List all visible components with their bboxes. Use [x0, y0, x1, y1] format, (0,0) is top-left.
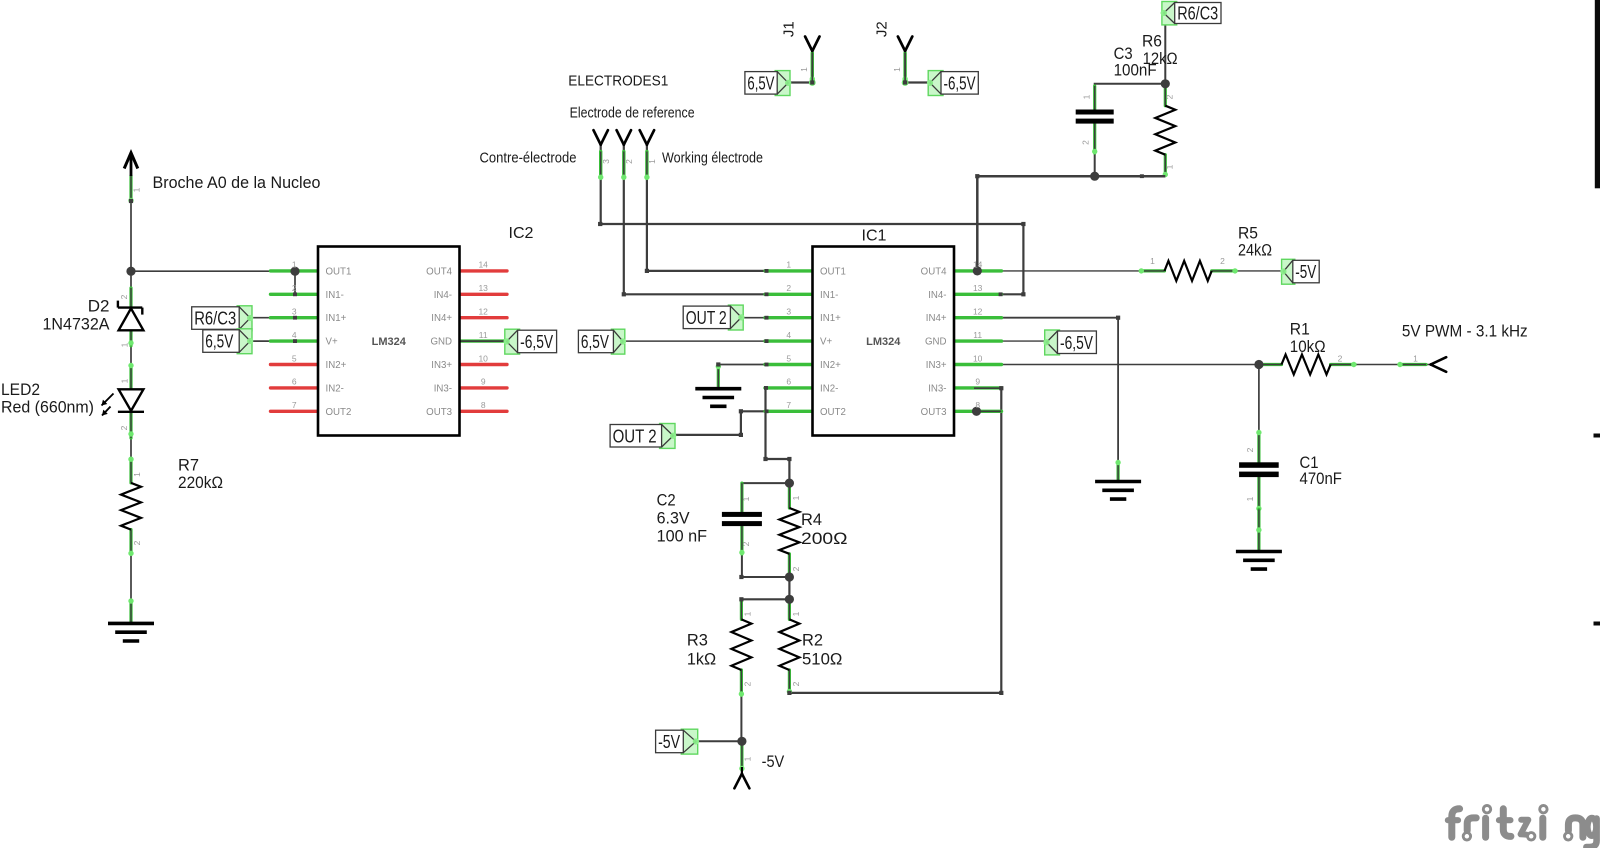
- svg-text:OUT 2: OUT 2: [613, 426, 657, 446]
- svg-text:Broche A0 de la Nucleo: Broche A0 de la Nucleo: [153, 173, 321, 192]
- svg-text:IN1+: IN1+: [820, 313, 841, 324]
- svg-text:12: 12: [973, 307, 983, 317]
- svg-text:2: 2: [791, 681, 801, 686]
- svg-text:9: 9: [975, 377, 980, 387]
- svg-text:3: 3: [601, 159, 611, 164]
- svg-text:510Ω: 510Ω: [802, 650, 842, 669]
- svg-text:OUT 2: OUT 2: [686, 308, 727, 328]
- svg-text:LM324: LM324: [866, 336, 901, 348]
- svg-text:IN3+: IN3+: [926, 360, 947, 371]
- svg-text:ELECTRODES1: ELECTRODES1: [568, 72, 668, 89]
- svg-text:4: 4: [786, 330, 791, 340]
- svg-text:IN3-: IN3-: [434, 383, 452, 394]
- svg-text:1: 1: [1245, 496, 1255, 501]
- svg-text:Red (660nm): Red (660nm): [1, 398, 94, 417]
- svg-text:1: 1: [743, 756, 753, 761]
- svg-text:2: 2: [119, 425, 129, 430]
- svg-text:1: 1: [292, 260, 297, 270]
- svg-text:11: 11: [479, 330, 488, 340]
- svg-text:-5V: -5V: [762, 752, 785, 771]
- svg-text:8: 8: [975, 400, 980, 410]
- svg-text:14: 14: [973, 260, 983, 270]
- svg-text:R3: R3: [687, 631, 708, 650]
- svg-text:4: 4: [292, 330, 297, 340]
- svg-text:5: 5: [292, 353, 297, 363]
- svg-text:7: 7: [786, 400, 791, 410]
- svg-text:V+: V+: [820, 337, 832, 348]
- svg-text:C2: C2: [657, 491, 676, 510]
- svg-text:IN1-: IN1-: [326, 290, 344, 301]
- svg-text:11: 11: [973, 330, 982, 340]
- svg-text:6: 6: [292, 377, 297, 387]
- svg-text:13: 13: [478, 283, 488, 293]
- svg-text:6,5V: 6,5V: [205, 332, 233, 352]
- svg-text:3: 3: [786, 307, 791, 317]
- svg-text:2: 2: [743, 681, 753, 686]
- svg-text:LM324: LM324: [372, 336, 407, 348]
- svg-text:Electrode de reference: Electrode de reference: [570, 105, 695, 122]
- svg-text:1: 1: [1413, 354, 1418, 364]
- svg-text:IN2+: IN2+: [820, 360, 841, 371]
- svg-text:R7: R7: [178, 456, 199, 475]
- svg-text:IC1: IC1: [862, 228, 887, 245]
- svg-text:OUT2: OUT2: [820, 407, 846, 418]
- svg-text:R6/C3: R6/C3: [1177, 4, 1218, 24]
- svg-text:-6,5V: -6,5V: [520, 332, 553, 352]
- svg-text:OUT1: OUT1: [326, 266, 352, 277]
- svg-text:IN1+: IN1+: [326, 313, 347, 324]
- svg-text:IN4+: IN4+: [926, 313, 947, 324]
- svg-text:1: 1: [120, 342, 130, 347]
- svg-text:-5V: -5V: [658, 732, 680, 752]
- svg-text:OUT1: OUT1: [820, 266, 846, 277]
- svg-text:10kΩ: 10kΩ: [1290, 337, 1326, 356]
- svg-text:-6,5V: -6,5V: [1060, 333, 1093, 353]
- svg-text:Working électrode: Working électrode: [662, 150, 763, 167]
- svg-text:2: 2: [132, 540, 142, 545]
- svg-text:Contre-électrode: Contre-électrode: [480, 150, 577, 167]
- svg-text:1: 1: [132, 472, 142, 477]
- svg-text:R6/C3: R6/C3: [194, 309, 236, 329]
- svg-text:R4: R4: [801, 510, 822, 529]
- svg-text:2: 2: [1245, 447, 1255, 452]
- svg-text:OUT4: OUT4: [921, 266, 947, 277]
- svg-text:OUT4: OUT4: [426, 266, 452, 277]
- svg-text:IN4-: IN4-: [928, 290, 946, 301]
- svg-text:12kΩ: 12kΩ: [1143, 49, 1178, 68]
- svg-text:IN2-: IN2-: [820, 383, 838, 394]
- svg-text:3: 3: [292, 307, 297, 317]
- svg-text:1: 1: [799, 67, 809, 72]
- svg-text:R1: R1: [1290, 320, 1310, 339]
- svg-text:5: 5: [786, 353, 791, 363]
- svg-text:2: 2: [1220, 256, 1225, 266]
- svg-text:2: 2: [791, 566, 801, 571]
- svg-text:1: 1: [741, 496, 751, 501]
- svg-text:2: 2: [624, 159, 634, 164]
- svg-text:IN3+: IN3+: [431, 360, 452, 371]
- svg-text:1: 1: [132, 187, 142, 192]
- svg-text:2: 2: [119, 294, 129, 299]
- svg-text:1: 1: [1082, 94, 1092, 99]
- svg-text:IN1-: IN1-: [820, 290, 838, 301]
- svg-text:13: 13: [973, 283, 983, 293]
- svg-text:D2: D2: [88, 297, 110, 316]
- svg-text:IN2-: IN2-: [326, 383, 344, 394]
- svg-text:6: 6: [786, 377, 791, 387]
- svg-text:J2: J2: [874, 21, 891, 37]
- svg-text:1: 1: [791, 611, 801, 616]
- svg-text:IC2: IC2: [509, 225, 534, 242]
- svg-text:1: 1: [743, 611, 753, 616]
- svg-text:1: 1: [647, 159, 657, 164]
- svg-text:14: 14: [478, 260, 488, 270]
- svg-text:LED2: LED2: [1, 380, 40, 399]
- svg-text:IN2+: IN2+: [326, 360, 347, 371]
- svg-text:J1: J1: [781, 21, 798, 37]
- svg-text:1N4732A: 1N4732A: [43, 315, 111, 334]
- svg-text:220kΩ: 220kΩ: [178, 473, 223, 492]
- svg-text:1: 1: [786, 260, 791, 270]
- svg-text:6,5V: 6,5V: [747, 73, 774, 93]
- svg-text:24kΩ: 24kΩ: [1238, 241, 1272, 260]
- svg-text:7: 7: [292, 400, 297, 410]
- svg-text:OUT3: OUT3: [426, 407, 452, 418]
- svg-text:1kΩ: 1kΩ: [687, 650, 716, 669]
- svg-text:100 nF: 100 nF: [657, 527, 708, 546]
- svg-text:IN4-: IN4-: [434, 290, 452, 301]
- svg-text:2: 2: [1081, 140, 1091, 145]
- svg-text:OUT2: OUT2: [326, 407, 352, 418]
- svg-text:1: 1: [120, 378, 130, 383]
- svg-text:6.3V: 6.3V: [657, 509, 691, 528]
- svg-text:-5V: -5V: [1295, 262, 1316, 282]
- svg-text:GND: GND: [925, 337, 947, 348]
- svg-text:2: 2: [292, 283, 297, 293]
- svg-text:2: 2: [1165, 94, 1175, 99]
- svg-text:R6: R6: [1142, 32, 1162, 51]
- svg-text:9: 9: [481, 377, 486, 387]
- svg-text:8: 8: [481, 400, 486, 410]
- svg-text:1: 1: [791, 495, 801, 500]
- svg-text:OUT3: OUT3: [921, 407, 947, 418]
- svg-text:470nF: 470nF: [1300, 469, 1342, 488]
- svg-text:R2: R2: [802, 631, 823, 650]
- svg-text:GND: GND: [430, 337, 452, 348]
- svg-text:2: 2: [1338, 354, 1343, 364]
- svg-text:V+: V+: [326, 337, 338, 348]
- svg-text:10: 10: [973, 353, 983, 363]
- svg-text:1: 1: [1150, 256, 1155, 266]
- svg-text:IN3-: IN3-: [928, 383, 946, 394]
- svg-text:1: 1: [892, 67, 902, 72]
- svg-text:5V PWM - 3.1 kHz: 5V PWM - 3.1 kHz: [1402, 322, 1528, 341]
- svg-text:-6,5V: -6,5V: [944, 73, 976, 93]
- svg-text:12: 12: [478, 307, 488, 317]
- svg-text:2: 2: [741, 541, 751, 546]
- svg-text:200Ω: 200Ω: [801, 529, 848, 548]
- svg-text:1: 1: [1165, 164, 1175, 169]
- svg-text:IN4+: IN4+: [431, 313, 452, 324]
- svg-text:10: 10: [478, 353, 488, 363]
- svg-text:6,5V: 6,5V: [581, 332, 609, 352]
- svg-text:2: 2: [786, 283, 791, 293]
